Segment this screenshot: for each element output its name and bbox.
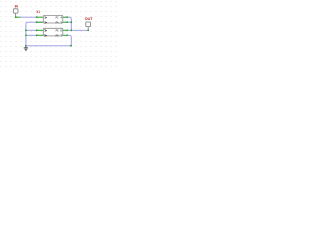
svg-text:7: 7 <box>60 33 62 37</box>
junction pin4 <box>67 16 69 18</box>
pin 8 stub (sec B out top) <box>63 29 67 31</box>
wire pin8 to OUT <box>67 29 88 31</box>
junction gnd corner <box>70 45 72 47</box>
wire IN to X1 pin1 <box>20 16 37 18</box>
svg-text:5▸: 5▸ <box>44 29 47 33</box>
pin 3 stub (sec A out bottom) <box>63 21 67 23</box>
wire row3 <box>26 29 37 31</box>
wire gnd-net row2 with rounded corner down left vertical <box>26 22 43 46</box>
junction row4 vertical <box>25 34 27 36</box>
svg-text:X1: X1 <box>36 9 40 14</box>
wire pin3 to vertical <box>67 21 71 23</box>
svg-text:P2: P2 <box>56 15 59 19</box>
junction pin1 <box>36 16 38 18</box>
svg-text:8: 8 <box>60 29 62 33</box>
pin 2 stub <box>37 21 43 23</box>
port IN box <box>13 9 18 17</box>
wire pin4 to right vertical <box>67 17 71 30</box>
X1 section A pin numbers <box>44 15 47 24</box>
pin 6 stub <box>37 34 43 36</box>
pin 7 stub (sec B out bottom) <box>63 34 67 36</box>
X1 section A box <box>43 15 63 23</box>
junction pin8 <box>67 29 69 31</box>
svg-text:4: 4 <box>60 15 62 19</box>
junction row3 vertical <box>25 29 27 31</box>
junction vertical row2 <box>70 21 72 23</box>
junction pin5 <box>36 29 38 31</box>
junction pin2 <box>36 21 38 23</box>
junction vertical row3 <box>70 29 72 31</box>
svg-text:P4: P4 <box>56 20 59 24</box>
port IN label <box>15 4 18 9</box>
junction pin7 <box>67 34 69 36</box>
junction pin6 <box>36 34 38 36</box>
junction OUT <box>87 29 89 31</box>
svg-text:1▸: 1▸ <box>44 15 47 19</box>
X1 section B pin numbers <box>44 29 47 38</box>
port IN pin segment <box>16 16 21 18</box>
svg-text:P6: P6 <box>56 29 59 33</box>
junction pin3 <box>67 21 69 23</box>
svg-text:P8: P8 <box>56 33 59 37</box>
svg-text:2▸: 2▸ <box>44 20 47 24</box>
junction ground <box>25 45 27 47</box>
svg-text:OUT: OUT <box>85 16 93 21</box>
port OUT box <box>86 22 91 30</box>
svg-text:6▸: 6▸ <box>44 34 47 38</box>
ground <box>24 46 28 51</box>
X1 section B box <box>43 28 63 36</box>
svg-text:3: 3 <box>60 20 62 24</box>
wire pin7 to ground rail <box>26 35 71 46</box>
pin 1 stub <box>37 16 43 18</box>
pin 4 stub (sec A out top) <box>63 16 67 18</box>
svg-text:IN: IN <box>15 4 18 9</box>
pin 5 stub <box>37 29 43 31</box>
wire row4 <box>26 34 37 36</box>
junction IN-wire <box>15 16 17 18</box>
